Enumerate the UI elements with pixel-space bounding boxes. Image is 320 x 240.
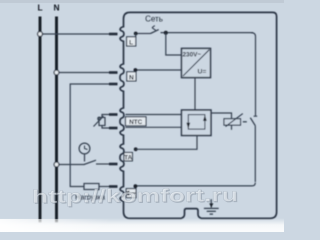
svg-text:Сеть: Сеть (145, 15, 163, 24)
svg-text:http://komfort.ru: http://komfort.ru (32, 184, 238, 207)
svg-text:N: N (129, 74, 134, 81)
svg-text:N: N (53, 3, 59, 13)
svg-text:NTC: NTC (129, 119, 143, 126)
svg-text:TA: TA (124, 154, 132, 161)
svg-text:L: L (37, 3, 42, 13)
svg-text:U=: U= (198, 69, 207, 76)
svg-text:230V~: 230V~ (183, 51, 202, 58)
svg-text:L: L (129, 39, 133, 46)
